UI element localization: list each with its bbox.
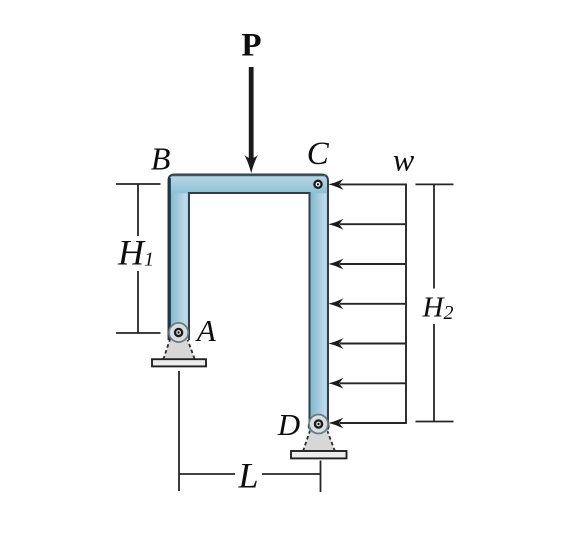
dimension L extension line at D xyxy=(320,461,322,493)
svg-text:D: D xyxy=(277,407,300,442)
load arrow 3 xyxy=(328,259,406,270)
member AB left dark edge xyxy=(168,178,170,340)
load arrow 4 xyxy=(328,298,406,309)
label w xyxy=(393,142,415,178)
dimension L extension line at A xyxy=(178,371,180,491)
svg-text:A: A xyxy=(195,313,217,348)
load arrow 1 xyxy=(328,179,406,190)
load arrow 7 xyxy=(328,418,406,429)
svg-text:P: P xyxy=(241,28,261,64)
member end cap at A xyxy=(169,323,188,342)
force P arrow xyxy=(244,67,258,173)
node label B xyxy=(151,141,171,177)
frame outline xyxy=(169,175,329,430)
svg-text:w: w xyxy=(393,142,415,178)
pin A xyxy=(175,329,182,336)
node label A xyxy=(195,313,217,348)
label H1 xyxy=(117,233,154,273)
svg-text:B: B xyxy=(151,141,171,177)
member end cap at D xyxy=(309,415,328,434)
label P xyxy=(241,28,261,64)
pin D xyxy=(315,420,322,427)
support bracket A xyxy=(163,324,195,359)
distributed load vertical line xyxy=(405,184,407,424)
label L xyxy=(237,456,258,496)
svg-text:C: C xyxy=(307,136,330,172)
label H2 xyxy=(422,291,454,324)
support bracket D xyxy=(303,416,335,451)
dimension H1 line xyxy=(116,184,161,333)
svg-text:L: L xyxy=(237,456,258,496)
node label C xyxy=(307,136,330,172)
svg-text:H1: H1 xyxy=(117,233,154,273)
load arrow 6 xyxy=(328,378,406,389)
member BC top dark edge xyxy=(172,175,326,177)
load arrow 2 xyxy=(328,219,406,230)
node label D xyxy=(277,407,300,442)
dimension H2 line xyxy=(416,184,454,421)
pin C xyxy=(314,181,321,188)
frame members fill (AB, BC, CD) xyxy=(168,174,329,435)
dimension L line xyxy=(179,473,321,475)
svg-text:H2: H2 xyxy=(422,291,454,324)
load arrow 5 xyxy=(328,338,406,349)
base plate D xyxy=(291,451,347,458)
base plate A xyxy=(152,359,206,366)
